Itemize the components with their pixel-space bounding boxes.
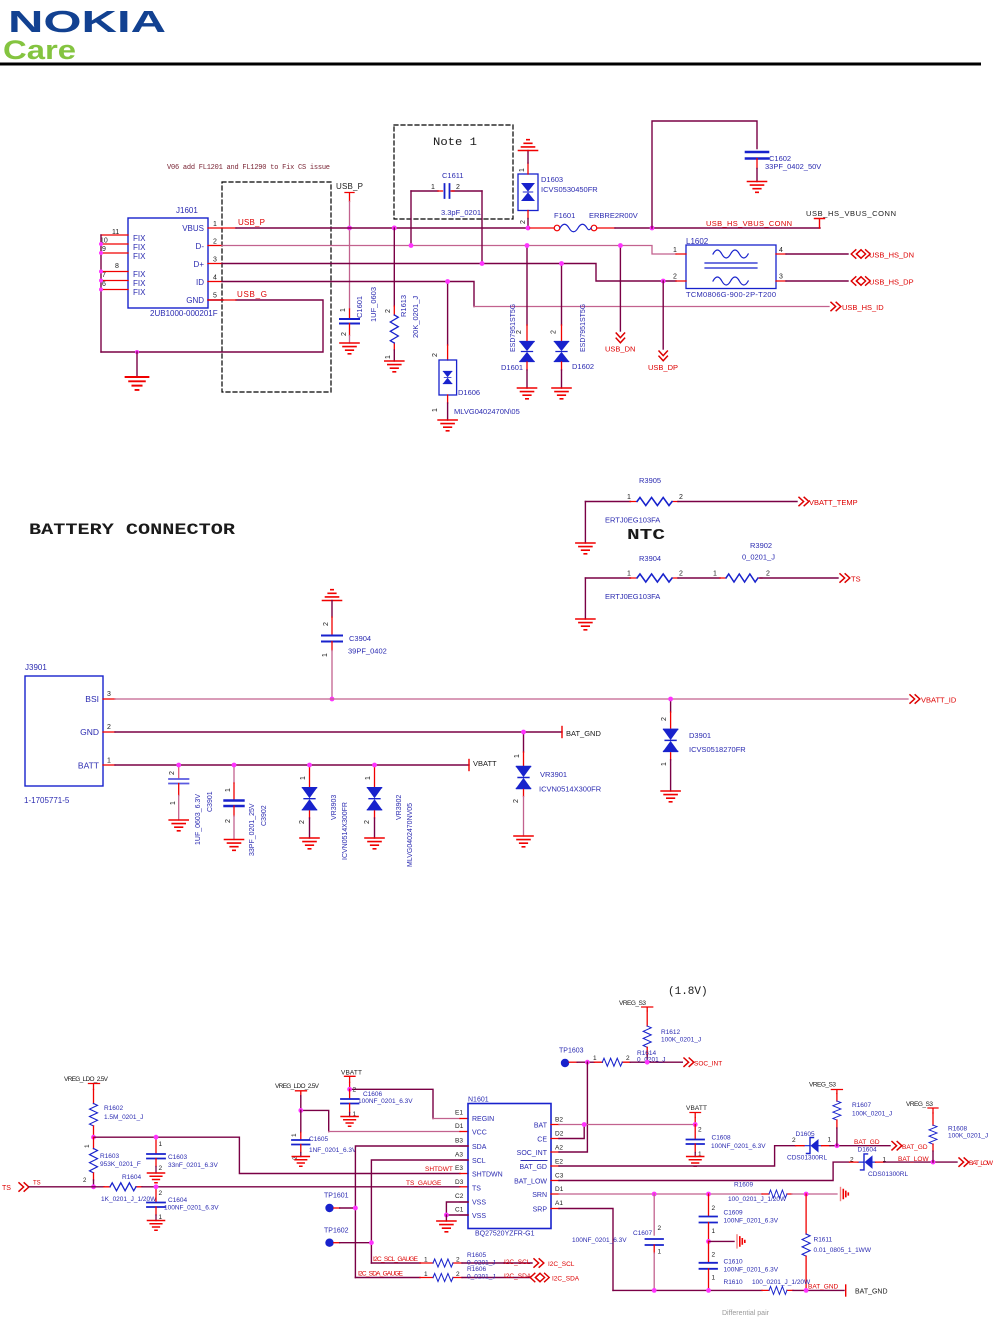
- wire BSI net: [103, 698, 115, 700]
- diode D1606: [432, 282, 520, 421]
- resistor R1602: [90, 1090, 144, 1138]
- svg-text:TS: TS: [33, 1181, 41, 1187]
- svg-text:E1: E1: [455, 1110, 463, 1117]
- svg-text:TCM0806G-900-2P-T200: TCM0806G-900-2P-T200: [686, 290, 776, 299]
- svg-text:BAT_GD: BAT_GD: [902, 1144, 928, 1151]
- capacitor C1606: [341, 1087, 413, 1119]
- wire SCL: [371, 1160, 468, 1263]
- ground VR3903: [300, 838, 319, 849]
- ground C3902: [225, 840, 244, 851]
- svg-text:1: 1: [712, 1275, 716, 1282]
- wire C1609 tap: [709, 1240, 735, 1242]
- svg-text:USB_P: USB_P: [238, 218, 265, 227]
- Nokia logo: [3, 4, 166, 65]
- wire VBUS_CONN: [615, 227, 820, 229]
- svg-text:BAT_GND: BAT_GND: [855, 1289, 888, 1296]
- svg-text:R3902: R3902: [750, 541, 772, 550]
- svg-text:R1603: R1603: [100, 1153, 120, 1160]
- port USB_HS_DN: [851, 250, 870, 258]
- net tick BAT_GND: [561, 727, 563, 738]
- svg-text:NOKIA: NOKIA: [8, 4, 166, 39]
- wire GND net: [103, 731, 115, 733]
- fuse F1601: [530, 211, 638, 232]
- resistor R1611: [802, 1194, 872, 1290]
- svg-text:REGIN: REGIN: [472, 1116, 494, 1123]
- svg-text:I2C_SCL_GAUGE: I2C_SCL_GAUGE: [373, 1256, 419, 1263]
- svg-text:ID: ID: [196, 278, 204, 287]
- svg-text:R1611: R1611: [814, 1237, 833, 1244]
- wire SRN row: [559, 1193, 762, 1195]
- resistor R1607: [833, 1094, 892, 1146]
- svg-text:953K_0201_F: 953K_0201_F: [100, 1161, 141, 1168]
- wire USB_HS_DP out: [786, 280, 848, 282]
- svg-text:BAT_LOW: BAT_LOW: [969, 1160, 994, 1167]
- svg-text:FIX: FIX: [133, 252, 146, 261]
- junction divider node: [91, 1135, 96, 1140]
- svg-text:ERTJ0EG103FA: ERTJ0EG103FA: [605, 592, 660, 601]
- svg-text:3.3pF_0201: 3.3pF_0201: [441, 208, 481, 217]
- svg-text:VREG_S3: VREG_S3: [619, 1000, 646, 1007]
- svg-text:TS: TS: [2, 1185, 11, 1192]
- svg-text:2: 2: [299, 820, 306, 824]
- svg-text:E3: E3: [455, 1165, 463, 1172]
- testpoint TP1602: [324, 1228, 371, 1247]
- wire VSS gnd stem: [445, 1215, 447, 1221]
- svg-text:USB_HS_VBUS_CONN: USB_HS_VBUS_CONN: [806, 209, 896, 218]
- svg-text:1UF_0603: 1UF_0603: [369, 287, 378, 322]
- svg-text:100NF_0201_6.3V: 100NF_0201_6.3V: [164, 1205, 219, 1212]
- svg-text:R1610: R1610: [724, 1279, 744, 1286]
- testpoint TP1603: [559, 1048, 587, 1068]
- svg-text:7: 7: [102, 272, 106, 279]
- svg-text:4: 4: [213, 275, 217, 282]
- power tick R1607: [831, 1090, 842, 1094]
- wire FIX bus vertical: [100, 235, 102, 352]
- port USB_HS_DP: [851, 277, 870, 285]
- svg-text:2: 2: [551, 330, 558, 334]
- diode D1603: [518, 151, 598, 229]
- svg-text:B3: B3: [455, 1138, 463, 1145]
- svg-text:TS: TS: [851, 575, 861, 584]
- ground C1603: [147, 1173, 164, 1183]
- svg-text:2: 2: [712, 1205, 716, 1212]
- junction C1607 bottom: [652, 1288, 657, 1293]
- svg-text:2UB1000-000201F: 2UB1000-000201F: [150, 309, 218, 318]
- wire TS row: [29, 1186, 104, 1188]
- svg-text:VBUS: VBUS: [182, 224, 204, 233]
- dashed box FL area: [222, 182, 331, 392]
- varistor VR3902: [364, 765, 414, 867]
- svg-text:D1601: D1601: [501, 363, 523, 372]
- svg-text:1: 1: [365, 776, 372, 780]
- svg-text:1: 1: [712, 1228, 716, 1235]
- svg-text:C1604: C1604: [168, 1197, 188, 1204]
- node USB_DP drop: [662, 281, 664, 349]
- junction C1611 pin1 on D-: [409, 243, 414, 248]
- wire SDA: [355, 1146, 468, 1278]
- svg-text:D1: D1: [455, 1123, 464, 1130]
- svg-text:SRN: SRN: [532, 1192, 547, 1199]
- junction USB_DP branch: [661, 279, 666, 284]
- junction C1609 on SRN: [706, 1192, 711, 1197]
- svg-text:2: 2: [213, 239, 217, 246]
- svg-text:2: 2: [341, 332, 348, 336]
- svg-text:C1: C1: [455, 1207, 464, 1214]
- capacitor C1607: [572, 1194, 663, 1290]
- svg-text:SRP: SRP: [533, 1207, 548, 1214]
- svg-text:1: 1: [170, 801, 177, 805]
- svg-text:100_0201_J_1/20W: 100_0201_J_1/20W: [752, 1279, 811, 1286]
- resistor R3904: [585, 554, 720, 601]
- svg-text:BQ27520YZFR-G1: BQ27520YZFR-G1: [475, 1231, 535, 1238]
- junction USB_P on VBUS: [347, 226, 352, 231]
- junction R1603 on TS: [91, 1184, 96, 1189]
- svg-text:USB_DP: USB_DP: [648, 363, 678, 372]
- svg-text:R1602: R1602: [104, 1105, 124, 1112]
- svg-text:1: 1: [828, 1137, 832, 1144]
- capacitor C3904: [322, 601, 387, 700]
- wire BATT net: [103, 764, 115, 766]
- svg-text:1-1705771-5: 1-1705771-5: [24, 796, 70, 805]
- svg-text:R1612: R1612: [661, 1029, 681, 1036]
- wire USB_HS_DN out: [786, 253, 848, 255]
- svg-text:C1601: C1601: [355, 296, 364, 318]
- power tick VREG_LDO: [89, 1084, 100, 1090]
- svg-text:I2C_SDA: I2C_SDA: [552, 1276, 580, 1283]
- wire VBATT to REGIN: [349, 1082, 351, 1089]
- capacitor C1602: [746, 152, 821, 182]
- svg-text:2: 2: [516, 330, 523, 334]
- svg-text:A1: A1: [555, 1200, 563, 1207]
- svg-text:VR3903: VR3903: [331, 795, 338, 820]
- svg-text:1: 1: [84, 1144, 91, 1148]
- svg-text:C2: C2: [455, 1193, 464, 1200]
- svg-text:0_0201_J: 0_0201_J: [742, 553, 775, 562]
- svg-text:ERTJ0EG103FA: ERTJ0EG103FA: [605, 516, 660, 525]
- power ground D1603 top: [519, 140, 538, 151]
- svg-text:VR3901: VR3901: [540, 770, 567, 779]
- resistor R1613: [385, 228, 420, 361]
- svg-text:C3904: C3904: [349, 634, 371, 643]
- svg-text:1: 1: [300, 776, 307, 780]
- diode D1604: [850, 1147, 909, 1179]
- diode D3901: [661, 699, 746, 791]
- ground D3901: [661, 791, 680, 802]
- svg-text:C1609: C1609: [724, 1210, 744, 1217]
- svg-text:N1601: N1601: [468, 1097, 489, 1104]
- svg-text:5: 5: [213, 293, 217, 300]
- svg-text:BAT_LOW: BAT_LOW: [898, 1156, 929, 1163]
- diode D1602: [551, 264, 595, 389]
- capacitor C3901: [169, 765, 214, 845]
- ground J1601: [126, 377, 149, 390]
- junction R1608: [931, 1160, 936, 1165]
- wire BAT_LOW out: [884, 1161, 957, 1163]
- svg-text:VBATT: VBATT: [341, 1070, 362, 1077]
- svg-text:2: 2: [456, 1271, 460, 1278]
- svg-text:USB_DN: USB_DN: [605, 345, 635, 354]
- power tick VBATT gauge: [345, 1076, 356, 1082]
- wire SOC_INT to A2: [559, 1062, 587, 1152]
- svg-text:R1608: R1608: [948, 1126, 968, 1133]
- ground R3904: [576, 619, 595, 630]
- svg-text:D2: D2: [555, 1131, 564, 1138]
- svg-text:VCC: VCC: [472, 1130, 487, 1137]
- wire R3905 gnd leg: [584, 502, 586, 544]
- resistor R3902: [713, 541, 838, 582]
- svg-text:SOC_INT: SOC_INT: [517, 1150, 548, 1157]
- svg-text:USB_G: USB_G: [237, 290, 267, 299]
- svg-text:1.5M_0201_J: 1.5M_0201_J: [104, 1114, 143, 1121]
- svg-text:1: 1: [225, 788, 232, 792]
- port USB_HS_ID: [831, 302, 841, 310]
- svg-text:2: 2: [766, 571, 770, 578]
- connector J1601: [128, 206, 218, 318]
- svg-text:0_0201_J: 0_0201_J: [467, 1274, 496, 1281]
- svg-text:V06 add FL1201 and FL1290 to F: V06 add FL1201 and FL1290 to Fix CS issu…: [167, 164, 330, 172]
- svg-text:TS_GAUGE: TS_GAUGE: [406, 1180, 442, 1187]
- svg-text:1: 1: [431, 184, 435, 191]
- IC N1601: [468, 1097, 551, 1238]
- power tick VREG_LDO 2: [296, 1091, 307, 1096]
- wire C1602 loop: [652, 121, 757, 228]
- svg-text:BAT: BAT: [534, 1123, 548, 1130]
- svg-text:TS: TS: [472, 1186, 481, 1193]
- svg-text:0_0201_J: 0_0201_J: [637, 1057, 666, 1064]
- svg-text:100NF_0201_6.3V: 100NF_0201_6.3V: [724, 1218, 779, 1225]
- svg-text:2: 2: [83, 1178, 87, 1184]
- wire bottom BAT_GND row: [613, 1289, 762, 1291]
- svg-text:3: 3: [779, 274, 783, 281]
- svg-text:1: 1: [627, 494, 631, 501]
- svg-text:J3901: J3901: [25, 663, 47, 672]
- junction VR3902: [372, 763, 377, 768]
- junction VR3901: [521, 730, 526, 735]
- svg-text:Note 1: Note 1: [433, 137, 477, 149]
- svg-text:C3: C3: [555, 1173, 564, 1180]
- wire USB_HS_ID: [474, 306, 829, 308]
- svg-text:C3901: C3901: [207, 791, 214, 812]
- svg-text:2: 2: [364, 820, 371, 824]
- junction D1601 on D-: [525, 243, 530, 248]
- svg-text:R3904: R3904: [639, 554, 661, 563]
- svg-text:1: 1: [658, 1249, 662, 1256]
- svg-text:I2C_SCL: I2C_SCL: [504, 1259, 531, 1266]
- svg-text:D+: D+: [194, 260, 205, 269]
- wire R3904 gnd leg: [584, 578, 586, 619]
- wire SOC_INT row: [587, 1061, 594, 1063]
- svg-text:3: 3: [213, 257, 217, 264]
- junction C1609 bottom: [706, 1239, 711, 1244]
- ground VSS: [437, 1221, 456, 1232]
- common mode choke L1602: [673, 237, 786, 299]
- wire CE link: [559, 1125, 584, 1139]
- svg-text:33PF_0402_50V: 33PF_0402_50V: [765, 162, 821, 171]
- svg-text:ICVN0514X300FR: ICVN0514X300FR: [342, 802, 349, 860]
- svg-text:2: 2: [658, 1225, 662, 1232]
- svg-text:1UF_0603_6.3V: 1UF_0603_6.3V: [195, 794, 202, 845]
- capacitor C1610: [700, 1241, 779, 1290]
- svg-text:2: 2: [673, 274, 677, 281]
- svg-text:1: 1: [519, 168, 526, 172]
- junction R1613 top on VBUS: [392, 226, 397, 231]
- svg-text:USB_P: USB_P: [336, 182, 363, 191]
- svg-text:ICVN0514X300FR: ICVN0514X300FR: [539, 785, 602, 794]
- svg-text:R1605: R1605: [467, 1252, 487, 1259]
- port VBATT_ID: [910, 695, 920, 703]
- svg-text:2: 2: [850, 1157, 854, 1164]
- wire ID row: [208, 281, 222, 283]
- svg-text:D3: D3: [455, 1179, 464, 1186]
- svg-text:2: 2: [626, 1055, 630, 1062]
- capacitor C1609: [700, 1194, 779, 1242]
- junction dots FIX: [99, 242, 103, 292]
- svg-text:GND: GND: [80, 727, 99, 737]
- svg-text:BAT_GD: BAT_GD: [854, 1139, 880, 1146]
- svg-text:BAT_LOW: BAT_LOW: [514, 1179, 547, 1186]
- svg-text:1: 1: [627, 571, 631, 578]
- svg-text:VR3902: VR3902: [396, 795, 403, 820]
- junction R1611 bottom: [804, 1288, 809, 1293]
- svg-text:SHTDWN: SHTDWN: [472, 1172, 503, 1179]
- connector J3901: [24, 663, 103, 805]
- svg-text:VBATT_TEMP: VBATT_TEMP: [809, 498, 858, 507]
- testpoint TP1601: [324, 1193, 355, 1213]
- power ground C3904 top: [323, 590, 342, 601]
- ground C1606: [341, 1117, 358, 1127]
- svg-text:0.01_0805_1_1WW: 0.01_0805_1_1WW: [814, 1247, 872, 1254]
- svg-text:BSI: BSI: [85, 694, 99, 704]
- svg-text:1: 1: [322, 653, 329, 657]
- power tick VREG_S3: [642, 1007, 653, 1011]
- svg-text:3: 3: [107, 691, 111, 698]
- capacitor C1608: [687, 1125, 767, 1159]
- wire D+ row: [208, 263, 222, 265]
- svg-text:100K_0201_J: 100K_0201_J: [852, 1111, 892, 1118]
- svg-text:B2: B2: [555, 1117, 563, 1124]
- svg-text:D-: D-: [196, 242, 205, 251]
- svg-text:1NF_0201_6.3V: 1NF_0201_6.3V: [309, 1147, 357, 1154]
- pin labels left N1601: [455, 1110, 464, 1214]
- svg-text:R1604: R1604: [122, 1174, 142, 1181]
- wire FIX pins left: [101, 235, 128, 290]
- wire I2C_SDA_GAUGE row: [355, 1277, 420, 1279]
- svg-text:2: 2: [385, 309, 392, 313]
- wire I2C_SCL_GAUGE row: [371, 1262, 420, 1264]
- svg-text:USB_HS_DN: USB_HS_DN: [869, 251, 914, 260]
- svg-text:R1606: R1606: [467, 1266, 487, 1273]
- svg-text:2: 2: [698, 1127, 702, 1134]
- node USB_P stub: [345, 193, 354, 202]
- svg-text:C3902: C3902: [261, 805, 268, 826]
- svg-text:FIX: FIX: [133, 288, 146, 297]
- svg-text:D1602: D1602: [572, 362, 594, 371]
- svg-text:39PF_0402: 39PF_0402: [348, 647, 387, 656]
- junction C1611 pin2 on D+: [480, 261, 485, 266]
- net tick VBATT: [468, 760, 470, 771]
- junction C1605: [298, 1108, 303, 1113]
- wire divider to SHTDWN: [94, 1137, 461, 1173]
- svg-text:1: 1: [385, 355, 392, 359]
- ground R1613: [385, 361, 404, 372]
- svg-text:C1610: C1610: [724, 1259, 744, 1266]
- junction VSS: [444, 1213, 449, 1218]
- diode D1601: [501, 246, 534, 389]
- junction D1606 on ID: [445, 279, 450, 284]
- capacitor C3902: [225, 765, 269, 856]
- svg-text:ICVS0530450FR: ICVS0530450FR: [541, 185, 598, 194]
- svg-text:100K_0201_J: 100K_0201_J: [948, 1133, 988, 1140]
- svg-text:C1605: C1605: [309, 1136, 329, 1143]
- svg-text:C1603: C1603: [168, 1154, 188, 1161]
- svg-text:BATT: BATT: [78, 761, 99, 771]
- terminator C1609 tap: [737, 1235, 745, 1248]
- capacitor C1611: [411, 171, 482, 264]
- junction TP1601 on SDA: [353, 1206, 358, 1211]
- svg-text:1: 1: [424, 1257, 428, 1264]
- pin labels right N1601: [555, 1117, 564, 1208]
- svg-text:8: 8: [115, 263, 119, 270]
- svg-text:1: 1: [593, 1055, 597, 1062]
- svg-text:D1606: D1606: [458, 388, 480, 397]
- svg-text:2: 2: [520, 220, 527, 224]
- svg-text:C1611: C1611: [442, 171, 464, 180]
- junction ground tap: [135, 350, 139, 354]
- svg-text:D1603: D1603: [541, 175, 563, 184]
- capacitor C1603: [147, 1137, 219, 1173]
- svg-text:R1609: R1609: [734, 1182, 754, 1189]
- svg-text:1: 1: [713, 571, 717, 578]
- ground C1608: [687, 1157, 704, 1167]
- power tick VBATT right: [690, 1113, 701, 1118]
- svg-text:2: 2: [679, 494, 683, 501]
- svg-text:1: 1: [340, 308, 347, 312]
- svg-text:Care: Care: [3, 35, 76, 65]
- svg-text:2: 2: [456, 184, 460, 191]
- power tick R1608: [928, 1108, 938, 1113]
- svg-text:C1608: C1608: [712, 1135, 732, 1142]
- svg-text:TP1602: TP1602: [324, 1228, 349, 1235]
- svg-text:VBATT: VBATT: [686, 1105, 707, 1112]
- svg-text:2: 2: [159, 1190, 163, 1197]
- svg-text:1: 1: [159, 1141, 163, 1148]
- svg-text:FIX: FIX: [133, 234, 146, 243]
- wire GND pin stub: [208, 299, 236, 301]
- svg-text:VREG_S3: VREG_S3: [906, 1101, 933, 1108]
- varistor VR3903: [299, 765, 349, 860]
- wire VREG to VCC: [300, 1096, 302, 1111]
- svg-text:VBATT_ID: VBATT_ID: [921, 696, 957, 705]
- svg-text:BAT_GND: BAT_GND: [566, 729, 601, 738]
- svg-text:CDS01300RL: CDS01300RL: [787, 1155, 827, 1162]
- svg-text:2: 2: [225, 819, 232, 823]
- junction R1607: [835, 1143, 840, 1148]
- svg-text:SHTDWT: SHTDWT: [425, 1166, 453, 1173]
- svg-text:D1604: D1604: [858, 1147, 878, 1154]
- svg-text:2: 2: [159, 1165, 163, 1172]
- svg-text:MLVG0402470NV05: MLVG0402470NV05: [407, 803, 414, 867]
- svg-text:D1: D1: [555, 1186, 564, 1193]
- ground VR3901: [514, 836, 533, 847]
- svg-text:VSS: VSS: [472, 1213, 486, 1220]
- port BAT_LOW: [959, 1158, 969, 1166]
- svg-text:NTC: NTC: [627, 527, 665, 544]
- wire ground stem: [136, 352, 138, 377]
- junction C3901: [176, 763, 181, 768]
- junction D3901 on BSI: [668, 697, 673, 702]
- svg-text:(1.8V): (1.8V): [668, 986, 708, 998]
- ground C1602: [748, 182, 767, 193]
